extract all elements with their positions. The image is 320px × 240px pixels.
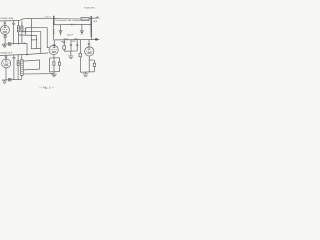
tube V2 envelope — [2, 59, 11, 68]
wire L1 stub to V3 — [47, 47, 49, 49]
wire at x77 — [76, 40, 78, 51]
element R4 small vertical with ticks — [24, 27, 26, 34]
battery B2 on rail2 — [8, 78, 11, 81]
tube V2 grid dashes — [3, 62, 10, 64]
X mark on V1 anode lead — [4, 22, 7, 24]
tube V3 plate bar — [53, 47, 56, 49]
capacitor D1 hanging — [60, 25, 62, 31]
wire cathode rail stage2 — [2, 78, 22, 81]
ground G1 — [4, 44, 6, 45]
box on x64 leg — [63, 46, 66, 49]
resistor R3 box — [21, 26, 23, 32]
tube V2 anode lead — [5, 55, 7, 61]
tube V1 plate bar — [4, 27, 7, 29]
tube V3 envelope — [49, 45, 58, 54]
wire U bottom bar lower — [31, 48, 41, 50]
wire coupler mid horizontal — [54, 23, 91, 25]
dark marks at ladder bottom — [90, 35, 92, 36]
ground G3 — [51, 74, 57, 77]
svg-text:100 pF: 100 pF — [67, 35, 73, 37]
label text below grid line — [61, 41, 76, 43]
resistor R5 vertical wire — [17, 55, 19, 61]
junction wire rail1 to bus2 — [26, 43, 28, 54]
tube V3 cathode bar — [52, 51, 55, 52]
capacitor C1 vertical wire — [13, 21, 15, 23]
wire stub from top bus down — [30, 19, 32, 49]
ladder left side of coupler — [52, 16, 54, 25]
svg-text:— Fig. 1 —: — Fig. 1 — — [39, 86, 55, 89]
wire coupler bottom horizontal — [54, 39, 91, 41]
tube V3 cathode lead — [53, 55, 55, 58]
label text above grid line — [64, 38, 79, 40]
wire U bottom bar upper — [31, 39, 36, 41]
terminal blob right edge — [95, 38, 98, 40]
wire top bus right segment to block — [53, 18, 81, 20]
tube V1 grid dashes — [2, 29, 9, 31]
capacitor C2 plates — [12, 58, 15, 59]
svg-text:ALIM.: ALIM. — [9, 17, 14, 20]
wire top-right exit to edge — [92, 17, 100, 19]
wire L1 horizontal — [26, 27, 47, 29]
tube V3 grid dashes — [50, 49, 57, 51]
wire bar joining three legs — [64, 50, 77, 52]
ladder right side of coupler — [90, 16, 92, 34]
wire left leg V3 — [48, 58, 50, 72]
svg-text:+ 250 V: + 250 V — [43, 17, 52, 19]
X mark on V3 anode lead — [53, 44, 56, 46]
tube V1 cathode lead — [4, 34, 6, 44]
svg-text:B.F.: B.F. — [9, 53, 14, 55]
resistor R5 box — [17, 61, 19, 66]
wire cathode bottom bar V4 — [80, 71, 94, 73]
label PLANCHE top right — [84, 6, 96, 9]
capacitor leg V3 — [58, 58, 60, 62]
svg-text:SECTEUR: SECTEUR — [82, 19, 89, 21]
tube V4 cathode lead — [88, 56, 90, 72]
svg-text:PLANCHE 1: PLANCHE 1 — [84, 6, 96, 9]
ground G4 stem — [85, 72, 87, 74]
resistor R2 vertical wire — [17, 21, 19, 26]
resistor R2 box — [17, 26, 19, 32]
resistor R6 tall box — [21, 55, 23, 60]
junction dot rail1 right — [24, 42, 25, 43]
wire L3 horizontal — [18, 34, 36, 37]
tube V4 plate bar — [88, 48, 91, 50]
wire top bus left segment — [0, 20, 20, 22]
svg-text:BLINDAGE: BLINDAGE — [0, 52, 7, 55]
svg-text:BLINDAGE: BLINDAGE — [0, 17, 7, 20]
capacitor C2 vertical wire — [13, 55, 15, 58]
capacitor leg V4 — [93, 60, 95, 63]
switch ticks on mid horizontal — [72, 24, 74, 26]
wire from block to right ladder — [89, 18, 91, 20]
wire L2 horizontal — [23, 31, 41, 33]
resistor leg V3 — [53, 58, 55, 62]
wire coupler left vertical — [53, 25, 55, 40]
junction dot on bus2 — [26, 54, 27, 55]
svg-text:couplage: couplage — [72, 20, 80, 22]
tube V4 grid dashes — [86, 50, 93, 52]
label text row stage2 — [0, 52, 13, 55]
label Fig caption — [39, 86, 55, 89]
tube V1 anode lead — [4, 21, 6, 28]
long wire at x80 — [79, 40, 81, 54]
label text right of ladder — [93, 21, 98, 23]
switch tick top-right — [96, 16, 98, 17]
box on x80 wire — [79, 53, 82, 57]
wire L1 vertical — [46, 28, 48, 48]
tube V2 cathode lead — [5, 68, 7, 80]
tube V3 anode lead — [53, 40, 55, 48]
capacitor D2 hanging — [81, 25, 83, 31]
ground G4 — [83, 74, 89, 77]
block T1 on top bus with label — [81, 17, 89, 20]
svg-text:G2: G2 — [74, 38, 78, 40]
resistor R1 zigzag on top bus — [20, 18, 25, 20]
wire bottom bus3 — [24, 73, 54, 75]
X mark on V4 anode lead — [88, 43, 91, 45]
tube V1 cathode bar — [3, 31, 6, 32]
svg-text:Déterminateur: Déterminateur — [56, 19, 68, 22]
wire cathode bottom bar V3 — [49, 71, 59, 73]
capacitor C1 plates — [12, 23, 15, 24]
wire cathode rail stage1 — [2, 42, 27, 45]
wire cathode link to cap leg V4 — [89, 59, 94, 61]
wire bus2 continuation to V3 grid — [27, 53, 49, 55]
wire L2 vertical — [40, 32, 42, 54]
ground stem center — [70, 51, 72, 56]
tube V4 envelope — [85, 47, 94, 56]
wire L3 vertical — [36, 35, 38, 48]
resistor R3 vertical wire — [21, 21, 23, 26]
tube V4 cathode bar — [88, 53, 91, 54]
cathode component on V1 lead — [4, 36, 6, 38]
label small text between caps — [67, 35, 73, 37]
tube V1 envelope — [0, 25, 9, 34]
label BLINDAGE text row top-left — [0, 17, 14, 20]
junction dot on rail1 — [18, 43, 19, 44]
wire at x71 — [70, 40, 72, 51]
tube V2 cathode bar — [5, 65, 8, 66]
wire cathode top bar V3 — [49, 57, 59, 59]
wire bus2 — [0, 54, 27, 55]
svg-text:R2: R2 — [72, 41, 76, 43]
label text above top bus center — [43, 17, 52, 19]
wire bottom line to right edge — [91, 38, 99, 40]
battery B1 on rail — [8, 43, 11, 46]
label text row coupler — [56, 19, 81, 22]
wire ladder to bottom line — [90, 34, 92, 40]
output box — [24, 60, 40, 70]
X mark on V2 anode lead — [5, 56, 8, 58]
screen divider legs: wire at x64 — [63, 40, 65, 46]
ground G2 — [4, 80, 6, 81]
ground G3 stem — [53, 72, 55, 74]
tube V4 anode lead — [88, 40, 90, 50]
tube V2 plate bar — [5, 60, 8, 62]
wire top bus main segment — [25, 18, 54, 20]
ground G5 center — [68, 56, 73, 59]
resistor ticks on coupler left vertical — [53, 30, 55, 34]
